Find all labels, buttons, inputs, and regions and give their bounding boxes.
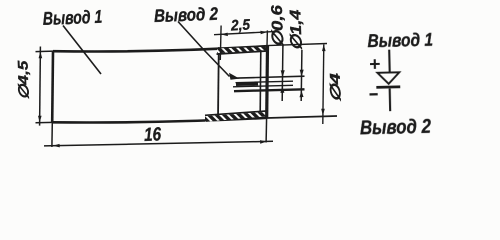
diode triangle (anode) <box>378 72 400 84</box>
16 right extension <box>265 118 268 143</box>
crimp wedge at lead start <box>229 73 240 80</box>
svg-text:∅4: ∅4 <box>327 73 344 103</box>
dia 0,6 extension/dimension line V3 <box>281 45 284 101</box>
cathode bar <box>376 85 400 88</box>
top edge extension (left, for dia 4.5) <box>36 50 55 53</box>
svg-text:2,5: 2,5 <box>230 16 251 34</box>
cap bottom inner line <box>205 111 267 115</box>
lead inner wire top line B <box>236 81 294 82</box>
cap left edge <box>217 47 220 120</box>
leader line to case <box>63 26 101 75</box>
package outline drawing (left) <box>14 4 343 148</box>
cap bottom hatch band <box>205 112 267 122</box>
svg-text:Вывод 2: Вывод 2 <box>360 116 431 140</box>
leader line to cap lead <box>178 22 230 77</box>
svg-text:∅0,6: ∅0,6 <box>269 4 287 47</box>
plus sign <box>370 59 380 69</box>
body bottom edge <box>52 118 267 123</box>
cap top hatch band <box>217 47 267 53</box>
svg-text:Вывод 1: Вывод 1 <box>367 29 433 51</box>
16 left extension <box>51 123 53 148</box>
dia 1,4 extension/dimension line V4 <box>300 50 303 101</box>
dia 4,5 dimension line <box>39 47 42 126</box>
dia 4 top extension <box>267 44 327 46</box>
anode lead wire <box>388 50 391 73</box>
diode symbol (right) <box>358 29 435 140</box>
2,5 right extension <box>266 30 268 45</box>
2,5 left extension <box>219 26 222 61</box>
svg-text:Вывод 2: Вывод 2 <box>154 4 219 26</box>
svg-text:∅4,5: ∅4,5 <box>14 60 31 100</box>
cap outer right edge <box>265 46 269 118</box>
lead inner wire bottom line C <box>233 85 293 87</box>
dia 4 dimension line <box>323 45 324 125</box>
inner wire solder fill segment <box>236 82 258 86</box>
dimension 2,5 line <box>214 32 274 35</box>
cap inner right wall line <box>259 50 262 112</box>
lead outer bottom line D <box>234 89 305 91</box>
lead outer top line A <box>232 76 305 78</box>
cap top inner line <box>217 51 267 54</box>
bottom edge extension (left) <box>36 121 54 123</box>
minus sign <box>370 93 378 95</box>
cathode lead wire <box>389 88 392 111</box>
body top edge <box>53 46 267 51</box>
svg-text:Вывод 1: Вывод 1 <box>42 6 102 29</box>
svg-text:16: 16 <box>144 124 162 146</box>
dia 4 bottom extension <box>267 116 337 118</box>
body left edge <box>51 51 54 122</box>
dimension 16 line <box>44 141 273 146</box>
